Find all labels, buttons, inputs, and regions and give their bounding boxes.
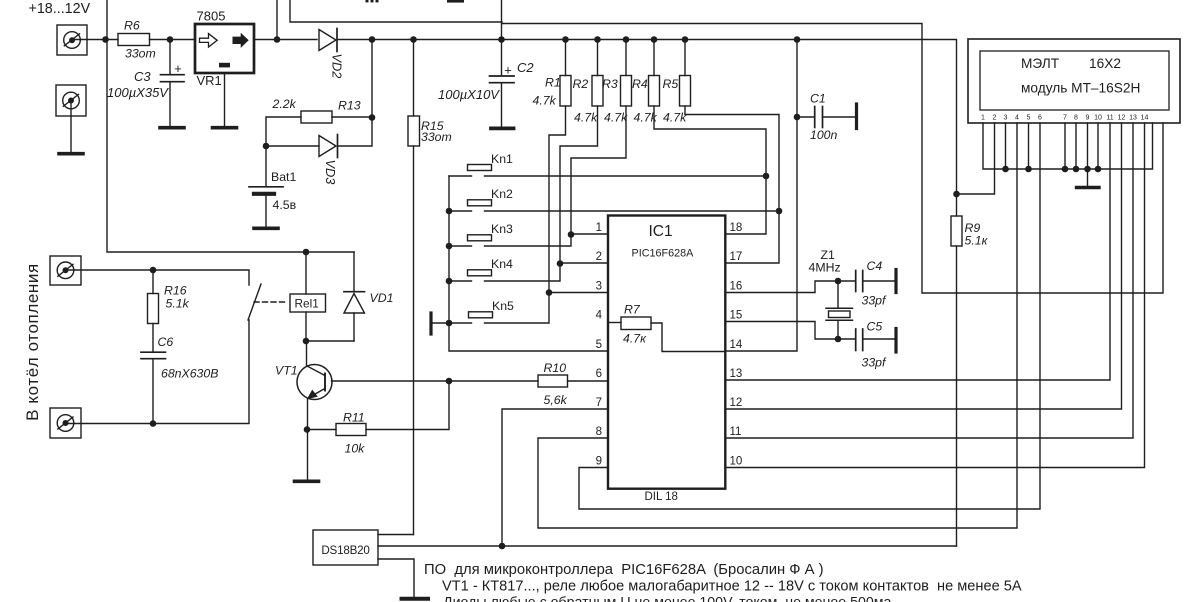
- wire pin15 to crystal bottom: [725, 322, 838, 340]
- diode VD1: [344, 252, 393, 341]
- svg-text:16X2: 16X2: [1089, 56, 1121, 71]
- wire LCD pin5 drop: [1028, 123, 1030, 169]
- switch button Kn1: [468, 152, 514, 171]
- node bus junctions: [1002, 166, 1101, 173]
- wire R11 to base node: [366, 381, 449, 430]
- svg-text:4.7k: 4.7k: [574, 111, 598, 125]
- svg-text:R11: R11: [343, 411, 365, 425]
- svg-text:C6: C6: [158, 335, 174, 349]
- wire pin11 to LCD pin13: [725, 123, 1133, 438]
- svg-text:11: 11: [1106, 115, 1113, 122]
- node bus junctions: [446, 208, 453, 327]
- wire bar to bus: [433, 322, 450, 324]
- svg-text:4.7k: 4.7k: [604, 111, 628, 125]
- capacitor C6: [141, 324, 218, 424]
- svg-text:Kn1: Kn1: [491, 152, 513, 166]
- wire DS18B20 DQ line to R9: [378, 545, 957, 547]
- svg-text:VR1: VR1: [197, 73, 222, 88]
- svg-text:VT1 - КТ817..., реле любое мал: VT1 - КТ817..., реле любое малогабаритно…: [442, 579, 1022, 595]
- wire pin16 to crystal top: [725, 281, 838, 293]
- svg-text:DS18B20: DS18B20: [321, 544, 369, 557]
- svg-text:4.7k: 4.7k: [533, 94, 557, 108]
- svg-text:R4: R4: [632, 77, 648, 91]
- ground bus terminal bar: [429, 313, 432, 334]
- op-amp IC1 PIC16F628A: [608, 216, 725, 504]
- svg-text:+18...12V: +18...12V: [29, 1, 91, 17]
- wire pin8 to LCD pin4: [538, 123, 1017, 528]
- svg-text:8: 8: [596, 426, 602, 438]
- svg-text:100n: 100n: [810, 128, 838, 142]
- wire pin7 down to DS18B20 DQ: [502, 409, 608, 546]
- wire R5 bottom to Kn2 node: [685, 106, 779, 211]
- resistor R11: [307, 411, 366, 456]
- svg-text:R13: R13: [338, 99, 361, 113]
- resistor R4: [632, 40, 660, 125]
- wire input to R6: [72, 39, 118, 41]
- wire Kn3 line to pin1 node: [449, 234, 571, 246]
- node base junction: [446, 378, 453, 385]
- svg-text:VD3: VD3: [323, 160, 338, 185]
- wire R7 to pin14 row: [651, 323, 725, 352]
- ground C3: [160, 126, 184, 130]
- svg-text:18: 18: [730, 222, 743, 234]
- svg-text:12: 12: [1118, 115, 1126, 122]
- node battery top junction: [263, 143, 270, 150]
- svg-text:+: +: [504, 63, 512, 78]
- wire R13 left to battery node: [266, 117, 301, 186]
- svg-text:МЭЛТ: МЭЛТ: [1021, 56, 1060, 71]
- resistor R9: [951, 194, 989, 546]
- capacitor C3: [107, 40, 184, 127]
- wire pin17 to Kn2 node: [725, 211, 779, 263]
- svg-text:2.2k: 2.2k: [272, 97, 297, 111]
- svg-text:13: 13: [730, 368, 743, 380]
- ground Bat1: [254, 227, 278, 231]
- ground C5 terminal bar: [894, 329, 897, 353]
- svg-text:3: 3: [1004, 115, 1008, 122]
- resistor R3: [602, 40, 632, 125]
- wire pin6 to VT1 base via R10: [332, 380, 609, 382]
- node Kn2 junction: [776, 208, 783, 215]
- svg-text:33om: 33om: [421, 130, 452, 144]
- svg-text:R1: R1: [545, 76, 561, 90]
- capacitor C1: [794, 92, 855, 143]
- pin numbers LCD: [981, 115, 1148, 122]
- svg-text:R10: R10: [544, 361, 567, 375]
- svg-text:5: 5: [596, 339, 602, 351]
- resistor R13: [272, 97, 361, 123]
- svg-text:VT1: VT1: [275, 364, 298, 378]
- switch button Kn3: [468, 222, 514, 241]
- switch blade relay contact: [248, 284, 261, 320]
- svg-text:Kn2: Kn2: [491, 187, 513, 201]
- node R16 top junction: [150, 267, 157, 274]
- ground VT1 emitter: [295, 479, 319, 483]
- wire +5V rail: [338, 40, 957, 195]
- svg-text:33pf: 33pf: [862, 356, 888, 370]
- pin numbers IC1 left: [596, 222, 603, 468]
- wire R6 to VR1: [150, 39, 196, 41]
- switch button Kn2: [468, 187, 514, 206]
- svg-text:2: 2: [993, 115, 997, 122]
- wire pin10 to LCD pin14: [725, 123, 1145, 468]
- wire pin13 to LCD pin11: [725, 123, 1110, 380]
- resistor R10: [538, 361, 568, 407]
- wire VR1 out up (cut off at top): [276, 0, 278, 40]
- ground C2: [491, 126, 514, 130]
- ground DS18B20: [402, 597, 429, 601]
- svg-text:DIL 18: DIL 18: [645, 491, 678, 503]
- pin numbers IC1 right: [730, 222, 743, 468]
- svg-text:10k: 10k: [345, 442, 366, 456]
- svg-text:C1: C1: [810, 92, 826, 106]
- wire R15 to DS18B20 vdd: [413, 146, 415, 535]
- svg-text:15: 15: [730, 310, 743, 322]
- wire DS18B20 gnd: [378, 559, 414, 597]
- svg-text:4: 4: [596, 310, 603, 322]
- svg-text:9: 9: [1086, 115, 1090, 122]
- svg-text:100µX35V: 100µX35V: [107, 85, 169, 100]
- node DQ junction pin7: [499, 543, 506, 550]
- svg-text:14: 14: [1141, 115, 1149, 122]
- svg-text:модуль МТ–16S2Н: модуль МТ–16S2Н: [1021, 81, 1140, 96]
- svg-text:33om: 33om: [125, 47, 156, 61]
- wire R13 right / VD2 out node: [332, 40, 372, 147]
- wire pin1 stub: [571, 233, 608, 235]
- wire LCD pin8 drop: [1075, 123, 1077, 169]
- svg-text:R3: R3: [602, 77, 618, 91]
- node C6 bottom junction: [150, 420, 157, 427]
- ground LCD bus: [1077, 186, 1100, 189]
- svg-text:Диоды любые с обратным U не ме: Диоды любые с обратным U не менее 100V, …: [443, 595, 892, 602]
- connector X3 output: [50, 256, 81, 285]
- node input junction: [102, 36, 109, 43]
- svg-text:16: 16: [730, 281, 743, 293]
- svg-text:Rel1: Rel1: [295, 297, 319, 311]
- node R13 right junction: [369, 114, 376, 121]
- svg-text:9: 9: [596, 456, 602, 468]
- svg-text:11: 11: [730, 426, 742, 438]
- svg-text:4: 4: [1015, 115, 1019, 122]
- svg-text:17: 17: [730, 251, 743, 263]
- svg-text:C5: C5: [867, 320, 883, 334]
- wire R2 bottom to pin2 node: [560, 106, 598, 263]
- svg-text:2: 2: [596, 251, 602, 263]
- wire X4 to switch blade: [66, 320, 250, 424]
- svg-text:ПО для микроконтроллера PIC1: ПО для микроконтроллера PIC16F628A (Брос…: [424, 562, 824, 578]
- wire VD3 anode: [266, 145, 319, 147]
- wire pin9 to LCD pin6: [579, 123, 1040, 509]
- wire pin3 stub: [549, 292, 608, 294]
- node C3 junction: [167, 36, 174, 43]
- svg-text:IC1: IC1: [649, 223, 673, 240]
- wire relay coil top: [305, 252, 307, 294]
- wire X2 down: [70, 101, 72, 153]
- svg-text:12: 12: [730, 397, 743, 409]
- node rail junction dots: [369, 36, 801, 43]
- wire Kn5 line to pin3 node: [449, 293, 549, 324]
- svg-text:14: 14: [730, 339, 743, 351]
- svg-text:5.1k: 5.1k: [166, 297, 190, 311]
- wire R1 bottom to pin3 node: [549, 106, 566, 293]
- ground C1 terminal bar: [855, 104, 858, 129]
- wire LCD ground bus: [983, 123, 1153, 169]
- relay Rel1: [290, 294, 326, 312]
- battery Bat1: [249, 170, 296, 227]
- svg-text:R7: R7: [624, 303, 641, 317]
- ground VR1: [213, 126, 237, 130]
- box upper unit (cut off at top): [290, 0, 502, 40]
- wire +5 to LCD pin2: [957, 123, 995, 194]
- switch button Kn5: [469, 299, 515, 318]
- svg-text:В котёл отопления: В котёл отопления: [23, 263, 42, 421]
- connector X2 input gnd: [56, 85, 86, 116]
- svg-text:6: 6: [596, 368, 602, 380]
- svg-text:C4: C4: [867, 259, 883, 273]
- svg-text:100µX10V: 100µX10V: [438, 87, 500, 102]
- svg-text:3: 3: [596, 281, 602, 293]
- svg-text:4.7к: 4.7к: [623, 332, 647, 346]
- wire relay coil bottom: [305, 312, 307, 341]
- wire R4 bottom to Kn1 node: [654, 106, 766, 176]
- wire button bus: [449, 176, 608, 351]
- svg-text:VD1: VD1: [370, 291, 394, 305]
- svg-text:8: 8: [1074, 115, 1078, 122]
- svg-text:R5: R5: [663, 77, 679, 91]
- resistor R2: [573, 40, 604, 125]
- svg-text:R16: R16: [164, 284, 187, 298]
- svg-text:10: 10: [1094, 115, 1102, 122]
- wire Kn1 line: [449, 175, 766, 177]
- node pin2 junction: [557, 260, 564, 267]
- wire LCD pin10 drop: [1097, 123, 1099, 169]
- svg-text:+: +: [174, 61, 182, 76]
- svg-text:5,6k: 5,6k: [544, 393, 568, 407]
- resistor R6: [118, 19, 156, 61]
- wire VR1 gnd pin: [224, 73, 226, 126]
- connector X4 output: [50, 408, 81, 438]
- node +5 LCD junction: [953, 191, 960, 198]
- resistor R15: [408, 40, 452, 147]
- node relay rail junction: [303, 249, 310, 256]
- wire LCD pin7 drop: [1064, 123, 1066, 169]
- wire pin14 VDD: [725, 40, 797, 352]
- capacitor C4: [838, 259, 895, 308]
- diode VD3: [319, 135, 338, 185]
- wire VR1 output: [254, 39, 317, 41]
- svg-text:33pf: 33pf: [862, 294, 888, 308]
- wire pin2 stub: [560, 262, 608, 264]
- ground X2: [59, 152, 83, 156]
- label remnants in upper box: [366, 0, 465, 3]
- svg-text:4.5в: 4.5в: [273, 198, 297, 212]
- svg-text:7805: 7805: [197, 9, 226, 24]
- regulator U VR1 7805: [195, 9, 254, 89]
- resistor R5: [663, 40, 691, 125]
- svg-text:7: 7: [596, 397, 602, 409]
- svg-text:Kn4: Kn4: [491, 257, 513, 271]
- svg-text:13: 13: [1129, 115, 1137, 122]
- wire R3 bottom to pin1 node: [571, 106, 626, 234]
- svg-text:1: 1: [981, 115, 985, 122]
- ground C4 terminal bar: [894, 270, 897, 293]
- wire Kn4 line to pin2 node: [449, 263, 560, 281]
- resistor R1: [533, 40, 572, 108]
- svg-text:68nX630B: 68nX630B: [161, 367, 218, 381]
- wire pin12 to LCD pin12: [725, 123, 1122, 409]
- svg-text:6: 6: [1038, 115, 1042, 122]
- svg-text:1: 1: [596, 222, 602, 234]
- wire dashed link to Rel1: [254, 301, 288, 303]
- svg-text:PIC16F628A: PIC16F628A: [632, 248, 695, 260]
- wire coil bottom to VD1: [306, 340, 354, 342]
- diode VD2: [319, 29, 345, 79]
- wire LCD pin9 drop: [1087, 123, 1089, 169]
- svg-text:R6: R6: [124, 19, 140, 33]
- svg-text:Kn5: Kn5: [492, 299, 514, 313]
- node pin1 junction: [568, 231, 575, 238]
- node coil bottom junction: [303, 338, 310, 345]
- svg-text:Bat1: Bat1: [271, 170, 296, 184]
- transistor Q VT1: [275, 341, 332, 480]
- svg-text:5: 5: [1027, 115, 1031, 122]
- capacitor C5: [838, 320, 895, 370]
- wire bus gnd drop: [1087, 169, 1089, 186]
- wire DS18B20 vdd stub: [378, 534, 414, 536]
- svg-text:4.7k: 4.7k: [663, 111, 687, 125]
- svg-text:10: 10: [730, 456, 743, 468]
- wire pin18 to Kn1 node: [725, 176, 766, 234]
- resistor R16: [148, 270, 190, 324]
- resistor R7: [608, 303, 651, 346]
- svg-text:5.1к: 5.1к: [965, 234, 989, 248]
- display module MT-16S2H: [968, 39, 1180, 123]
- wire LCD pin3 drop: [1005, 123, 1007, 169]
- connector X1 input: [57, 25, 87, 55]
- svg-text:Kn3: Kn3: [491, 222, 513, 236]
- svg-text:C3: C3: [134, 69, 151, 84]
- svg-text:7: 7: [1063, 115, 1067, 122]
- wire X3 to switch top contact: [66, 270, 250, 285]
- wire upper box to LCD backlight: [502, 24, 1163, 294]
- crystal Z1: [809, 248, 853, 342]
- sensor U DS18B20: [313, 530, 378, 565]
- node Kn1 junction: [763, 173, 770, 180]
- node emitter junction: [304, 426, 311, 433]
- svg-text:C2: C2: [517, 60, 534, 75]
- wire Kn2 line: [449, 210, 779, 212]
- node VR1 out junction: [274, 36, 281, 43]
- capacitor C2: [438, 40, 534, 127]
- wire left rail down to relay line: [107, 0, 354, 252]
- node pin3 junction: [546, 289, 553, 296]
- svg-text:VD2: VD2: [330, 54, 345, 79]
- switch button Kn4: [468, 257, 514, 276]
- svg-text:R2: R2: [573, 77, 589, 91]
- svg-text:4MHz: 4MHz: [809, 261, 841, 275]
